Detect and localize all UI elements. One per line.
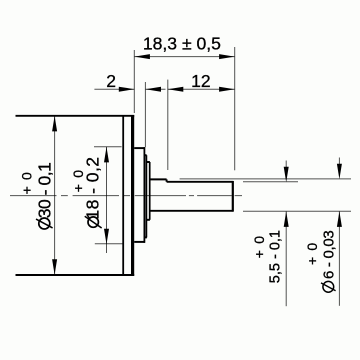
extension shaft top d6: [180, 178, 351, 180]
dimension thin lines: [55, 47, 351, 306]
svg-text:+ 0: + 0: [251, 235, 267, 258]
arrow 5,5 up: [284, 211, 289, 227]
arrow D30 up: [52, 116, 57, 131]
arrow 2 pointing left: [146, 87, 162, 92]
arrow 18,3 left: [134, 54, 150, 59]
centerline: [10, 195, 242, 197]
wire collar top: [146, 161, 150, 163]
label D6: [321, 231, 338, 293]
wire body front face bar: [131, 115, 134, 276]
extension x234: [234, 47, 236, 170]
dim line D18: [106, 147, 108, 253]
arrow 12 left: [168, 87, 184, 92]
wire collar bottom: [146, 219, 150, 221]
arrow D6 up: [337, 211, 342, 227]
wire collar edge: [149, 162, 151, 220]
wire hub top edge: [134, 147, 145, 149]
label D18: [83, 157, 103, 228]
wire shaft full-diameter top: [150, 178, 167, 180]
hub (Ø18 spigot): [134, 147, 150, 243]
extension D18 bottom: [95, 243, 123, 245]
wire body bottom edge: [16, 274, 135, 276]
extension D18 top: [94, 146, 122, 148]
wire shaft end: [232, 181, 234, 212]
dim line 2 right tail: [146, 88, 166, 90]
arrow 12 right: [219, 87, 235, 92]
svg-text:+ 0: + 0: [19, 171, 35, 194]
wire step ring bottom: [144, 236, 147, 238]
svg-text:30 - 0,1: 30 - 0,1: [35, 163, 55, 219]
wire shaft bottom: [150, 210, 234, 212]
dim line D30: [54, 116, 56, 274]
dim line 5,5 lower: [285, 211, 287, 306]
dim line 12: [168, 88, 235, 90]
arrow 18,3 right: [219, 54, 235, 59]
arrow 5,5 down: [284, 167, 289, 183]
dim line D6 lower: [338, 211, 340, 305]
extension x167: [167, 80, 169, 170]
extension shaft bottom: [243, 210, 351, 212]
svg-text:2: 2: [106, 71, 116, 91]
motor body outline: [16, 115, 135, 276]
dimension texts: [19, 33, 338, 292]
arrow D18 down: [104, 229, 109, 245]
svg-text:+ 0: + 0: [304, 242, 320, 265]
wire hub bottom edge: [134, 241, 145, 243]
arrow 2 pointing right: [119, 87, 135, 92]
wire shaft flat step: [166, 179, 168, 181]
dim line 5,5 upper stub: [285, 161, 287, 171]
dim line 2 left tail: [94, 88, 134, 90]
svg-text:18,3 ± 0,5: 18,3 ± 0,5: [143, 33, 221, 53]
svg-text:+ 0: + 0: [70, 169, 86, 192]
arrow D6 down: [337, 164, 342, 180]
wire hub face: [143, 147, 145, 243]
arrow D18 up: [104, 147, 109, 163]
wire step ring edge: [145, 155, 147, 237]
extension x145: [144, 82, 146, 147]
svg-text:12: 12: [191, 71, 210, 91]
svg-text:6 - 0,03: 6 - 0,03: [321, 231, 338, 279]
svg-text:5,5 - 0,1: 5,5 - 0,1: [267, 230, 283, 283]
wire shaft flat top: [167, 181, 234, 183]
extension x134: [133, 50, 135, 113]
dim line 18,3: [134, 56, 234, 58]
extension flat top 5,5: [243, 181, 298, 183]
wire body joint line: [122, 115, 124, 276]
dim line D6 upper stub: [338, 158, 340, 168]
label D30: [35, 163, 55, 229]
wire step ring top: [144, 154, 146, 156]
arrowheads: [52, 54, 342, 275]
wire body top edge: [16, 115, 135, 117]
shaft: [150, 179, 234, 211]
arrow D30 down: [52, 259, 57, 275]
